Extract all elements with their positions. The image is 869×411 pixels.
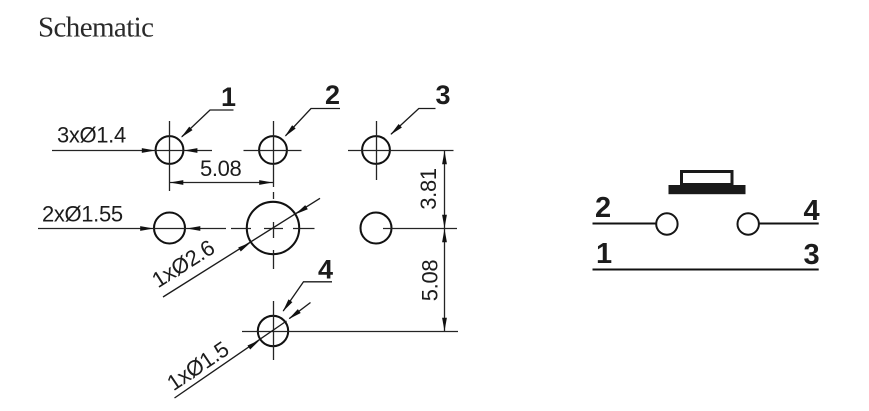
leader for pin 1 xyxy=(182,110,234,137)
svg-text:1: 1 xyxy=(221,82,236,112)
arrow at H1 left edge xyxy=(142,148,156,153)
centerline H1 vertical xyxy=(169,121,171,191)
svg-text:3: 3 xyxy=(436,80,451,110)
centerline H8 vertical xyxy=(273,301,275,360)
svg-text:4: 4 xyxy=(318,255,333,285)
centerline H3 vertical xyxy=(376,121,378,180)
centerline H8 horizontal extension to dimension line xyxy=(242,331,458,333)
svg-text:2: 2 xyxy=(595,192,611,224)
hole H3 (pad 3, Ø1.4) xyxy=(362,136,390,164)
hole H5 (Ø1.55 left) xyxy=(154,213,185,244)
svg-text:2xØ1.55: 2xØ1.55 xyxy=(42,202,123,227)
svg-text:Schematic: Schematic xyxy=(38,12,153,44)
hole H8 (pad 4, Ø1.5) xyxy=(258,316,288,346)
hole H6 (Ø2.6 center) xyxy=(247,202,299,254)
diameter leader 1xØ2.6 diagonal xyxy=(163,198,320,297)
arrow at H5 left edge xyxy=(140,226,154,231)
svg-text:1: 1 xyxy=(596,238,612,270)
wire from pin 2 xyxy=(593,223,656,225)
short arrow at H8 upper right edge xyxy=(289,303,310,319)
arrow at H1 right edge xyxy=(184,148,198,153)
svg-text:3: 3 xyxy=(804,239,820,271)
centerline H6 horizontal segments xyxy=(231,228,251,230)
centerline H2 horizontal xyxy=(244,150,302,152)
diameter leader 1xØ1.5 diagonal xyxy=(175,321,287,398)
leader for pin 4 xyxy=(283,282,332,311)
leader for pin 2 xyxy=(286,109,341,136)
centerline H6 vertical segments xyxy=(273,222,275,238)
centerline H2 vertical down to big hole xyxy=(273,121,275,187)
centerline H3 horizontal extension to dimension line xyxy=(348,150,454,152)
dimension 5.08 vertical xyxy=(444,229,446,332)
hole H1 (pad 1, Ø1.4) xyxy=(156,136,184,164)
leader for pin 3 xyxy=(391,109,436,135)
svg-text:4: 4 xyxy=(804,195,820,227)
leader 2xØ1.55 horizontal line through H5 xyxy=(38,228,226,230)
svg-text:5.08: 5.08 xyxy=(418,260,443,302)
centerline H7 horizontal extension to dimension line xyxy=(383,228,457,230)
hole H2 (pad 2, Ø1.4) xyxy=(259,136,287,164)
svg-text:3.81: 3.81 xyxy=(416,168,441,210)
svg-text:1xØ1.5: 1xØ1.5 xyxy=(162,336,233,395)
svg-text:2: 2 xyxy=(325,80,340,110)
contact circle left xyxy=(656,213,677,234)
arrow at H5 right edge xyxy=(187,226,201,231)
hole H7 (Ø1.55 right) xyxy=(361,213,392,244)
wire pin 1 to pin 3 xyxy=(593,269,819,271)
contact circle right xyxy=(738,213,759,234)
switch button base bar xyxy=(669,185,746,194)
wire to pin 4 xyxy=(760,223,819,225)
switch button cap xyxy=(682,172,733,185)
dimension 5.08 horizontal between H1 and H2 xyxy=(170,182,274,184)
leader 3xØ1.4 horizontal line through H1 xyxy=(52,150,212,152)
dimension 3.81 vertical xyxy=(444,151,446,229)
svg-text:5.08: 5.08 xyxy=(200,156,242,181)
svg-text:3xØ1.4: 3xØ1.4 xyxy=(57,123,126,148)
